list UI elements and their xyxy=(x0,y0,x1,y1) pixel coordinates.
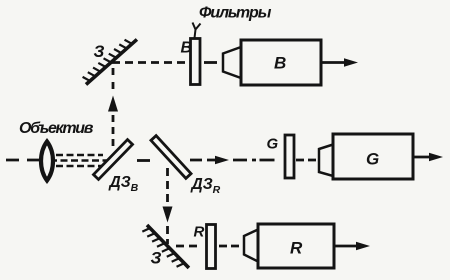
leader from Фильтры to filter B xyxy=(193,23,201,39)
arrow up on blue beam xyxy=(108,96,118,112)
wire: blue beam dashed vertical ДЗ_B to mirror З xyxy=(112,68,115,146)
dichroic mirror ДЗ_B xyxy=(93,140,132,180)
camera tube G box xyxy=(333,134,413,179)
svg-text:G: G xyxy=(366,150,379,169)
lens (objective) xyxy=(41,142,53,181)
svg-text:Объектив: Объектив xyxy=(19,120,94,137)
wire: axis after ДЗ_R with arrow right xyxy=(190,159,218,162)
wire: beam ray upper (lens to ДЗ_B) xyxy=(56,154,103,157)
wire: beam ray axial (lens to ДЗ_B) xyxy=(55,159,107,162)
svg-text:В: В xyxy=(274,54,286,73)
wire: dash between ДЗ_B and ДЗ_R xyxy=(137,159,150,162)
svg-text:R: R xyxy=(194,224,205,241)
camera tube B faceplate (trapezoid) xyxy=(223,47,241,78)
arrow down on red beam xyxy=(163,207,173,223)
arrow out of R xyxy=(334,245,359,248)
svg-text:З: З xyxy=(151,249,162,268)
camera tube G faceplate (trapezoid) xyxy=(319,145,333,177)
mirror З (bottom) xyxy=(141,225,189,274)
svg-text:З: З xyxy=(94,42,105,61)
svg-text:G: G xyxy=(267,136,279,153)
camera tube R box xyxy=(258,224,334,268)
filter B xyxy=(191,39,201,85)
filter G xyxy=(285,135,294,178)
camera tube B box xyxy=(241,40,321,85)
arrow out of B xyxy=(321,61,347,64)
filter R xyxy=(207,225,216,269)
camera tube R faceplate (trapezoid) xyxy=(244,230,258,262)
wire: dash-dot axis to filter G xyxy=(233,159,275,162)
arrow out of G xyxy=(413,156,432,159)
wire: dash filter B to tube B xyxy=(204,61,217,64)
wire: dashed mirror З to filter R xyxy=(176,245,197,248)
svg-text:R: R xyxy=(290,239,303,258)
svg-text:Фильтры: Фильтры xyxy=(199,5,272,22)
wire: optical axis dash-dot left of lens xyxy=(6,159,42,162)
wire: beam ray lower (lens to ДЗ_B) xyxy=(56,165,103,168)
wire: dashes filter G to tube G xyxy=(296,159,316,162)
arrow right on green axis xyxy=(215,156,229,165)
wire: red beam dashed vertical ДЗ_R down to mirror З xyxy=(166,168,169,244)
wire: dashed horizontal mirror З to filter B xyxy=(112,61,185,64)
svg-text:В: В xyxy=(181,40,193,57)
wire: dashes filter R to tube R xyxy=(219,245,239,248)
mirror З (top) xyxy=(81,33,137,84)
dichroic mirror ДЗ_R xyxy=(151,136,191,179)
